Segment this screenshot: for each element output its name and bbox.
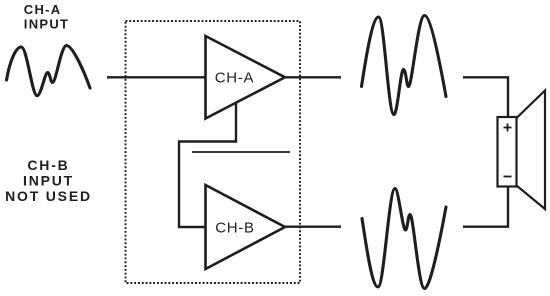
- speaker driver rectangle: [498, 117, 517, 187]
- op-amp CH-A: [206, 36, 286, 119]
- svg-text:NOT USED: NOT USED: [5, 188, 92, 204]
- wire: input to CH-A amplifier: [107, 76, 206, 78]
- speaker cone: [517, 91, 546, 210]
- speaker minus terminal mark: [504, 176, 512, 178]
- speaker plus terminal mark: [504, 124, 512, 132]
- label: CH-A INPUT: [24, 2, 70, 31]
- wire: lower output to speaker minus terminal: [463, 186, 508, 227]
- svg-text:CH-A: CH-A: [215, 70, 254, 87]
- svg-text:CH-A: CH-A: [24, 2, 62, 17]
- input waveform (CH-A signal): [7, 46, 91, 96]
- svg-text:CH-B: CH-B: [215, 220, 254, 237]
- wire: CH-A output: [285, 76, 341, 78]
- upper output waveform (amplified CH-A): [362, 16, 447, 115]
- lower output waveform (inverted CH-B): [362, 189, 446, 289]
- svg-text:INPUT: INPUT: [23, 173, 74, 189]
- svg-text:CH-B: CH-B: [27, 157, 69, 173]
- wire: inverting tap from CH-A output edge to CH-B input: [179, 102, 236, 227]
- wire: CH-B output: [285, 225, 341, 227]
- svg-text:INPUT: INPUT: [24, 17, 70, 32]
- label: CH-B INPUT NOT USED: [5, 157, 92, 204]
- CH-B unused input line: [192, 151, 290, 153]
- op-amp CH-B: [206, 185, 286, 269]
- dashed box (amplifier enclosure): [126, 21, 301, 283]
- wire: upper output to speaker plus terminal: [463, 77, 508, 118]
